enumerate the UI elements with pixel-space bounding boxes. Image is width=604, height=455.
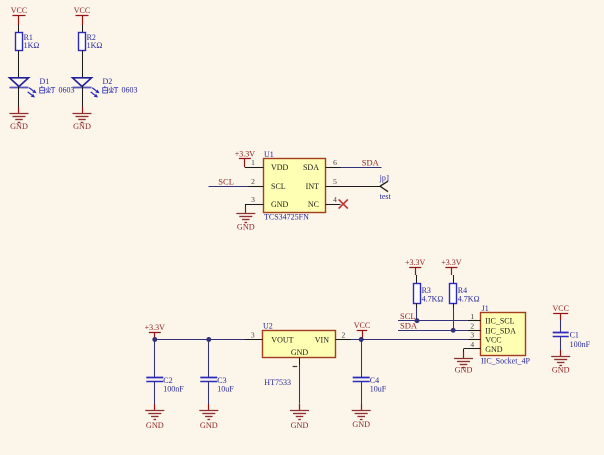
svg-text:VCC: VCC <box>74 6 90 15</box>
svg-text:+3.3V: +3.3V <box>235 149 256 158</box>
svg-text:1: 1 <box>470 312 474 321</box>
svg-text:2: 2 <box>342 331 346 340</box>
svg-text:SCL: SCL <box>271 182 286 191</box>
svg-text:10uF: 10uF <box>370 385 387 394</box>
svg-text:IIC_SDA: IIC_SDA <box>485 326 516 335</box>
svg-text:GND: GND <box>237 223 255 232</box>
svg-text:GND: GND <box>10 122 28 131</box>
svg-text:3: 3 <box>470 331 474 340</box>
svg-text:6: 6 <box>333 158 337 167</box>
svg-text:1KΩ: 1KΩ <box>24 41 40 50</box>
svg-text:D2: D2 <box>103 77 113 86</box>
svg-text:test: test <box>380 192 392 201</box>
svg-text:100nF: 100nF <box>570 340 591 349</box>
svg-text:GND: GND <box>146 421 164 430</box>
svg-text:J1: J1 <box>482 304 489 313</box>
svg-text:SCL: SCL <box>400 311 416 321</box>
svg-text:1: 1 <box>251 158 255 167</box>
svg-text:GND: GND <box>73 122 91 131</box>
svg-text:VCC: VCC <box>485 336 501 345</box>
svg-text:IIC_SCL: IIC_SCL <box>485 317 514 326</box>
svg-text:5: 5 <box>333 177 337 186</box>
svg-text:4: 4 <box>470 340 474 349</box>
svg-text:U2: U2 <box>263 322 273 331</box>
svg-text:INT: INT <box>306 182 319 191</box>
svg-text:SDA: SDA <box>400 321 418 331</box>
svg-text:2: 2 <box>251 177 255 186</box>
svg-text:4.7KΩ: 4.7KΩ <box>458 295 480 304</box>
svg-text:GND: GND <box>352 420 370 429</box>
svg-text:GND: GND <box>200 421 218 430</box>
svg-text:GND: GND <box>291 348 309 357</box>
svg-text:D1: D1 <box>40 77 50 86</box>
svg-text:100nF: 100nF <box>163 385 184 394</box>
svg-text:SCL: SCL <box>218 177 234 187</box>
svg-text:U1: U1 <box>264 150 274 159</box>
svg-text:GND: GND <box>552 366 570 375</box>
svg-text:VIN: VIN <box>315 336 329 345</box>
svg-text:4.7KΩ: 4.7KΩ <box>422 295 444 304</box>
svg-text:VOUT: VOUT <box>271 336 293 345</box>
svg-text:+3.3V: +3.3V <box>145 323 166 332</box>
svg-text:VCC: VCC <box>354 321 370 330</box>
svg-text:2: 2 <box>470 322 474 331</box>
svg-text:0603: 0603 <box>122 86 138 95</box>
svg-text:jp1: jp1 <box>379 173 390 182</box>
svg-text:TCS34725FN: TCS34725FN <box>264 212 309 221</box>
svg-text:GND: GND <box>455 365 473 374</box>
svg-text:3: 3 <box>251 331 255 340</box>
svg-text:VDD: VDD <box>271 163 289 172</box>
svg-text:3: 3 <box>251 195 255 204</box>
svg-text:VCC: VCC <box>552 304 568 313</box>
svg-text:GND: GND <box>485 345 503 354</box>
svg-text:VCC: VCC <box>11 6 27 15</box>
svg-text:+3.3V: +3.3V <box>405 258 426 267</box>
svg-text:GND: GND <box>291 421 309 430</box>
svg-text:+3.3V: +3.3V <box>441 258 462 267</box>
svg-text:SDA: SDA <box>303 163 319 172</box>
svg-text:GND: GND <box>271 200 289 209</box>
svg-text:IIC_Socket_4P: IIC_Socket_4P <box>481 357 530 366</box>
svg-text:NC: NC <box>308 200 319 209</box>
svg-text:C1: C1 <box>570 330 579 339</box>
svg-text:4: 4 <box>333 195 337 204</box>
svg-text:1KΩ: 1KΩ <box>87 41 103 50</box>
svg-text:0603: 0603 <box>59 86 75 95</box>
svg-text:HT7533: HT7533 <box>264 378 291 387</box>
svg-text:10uF: 10uF <box>217 385 234 394</box>
svg-text:SDA: SDA <box>362 158 380 168</box>
